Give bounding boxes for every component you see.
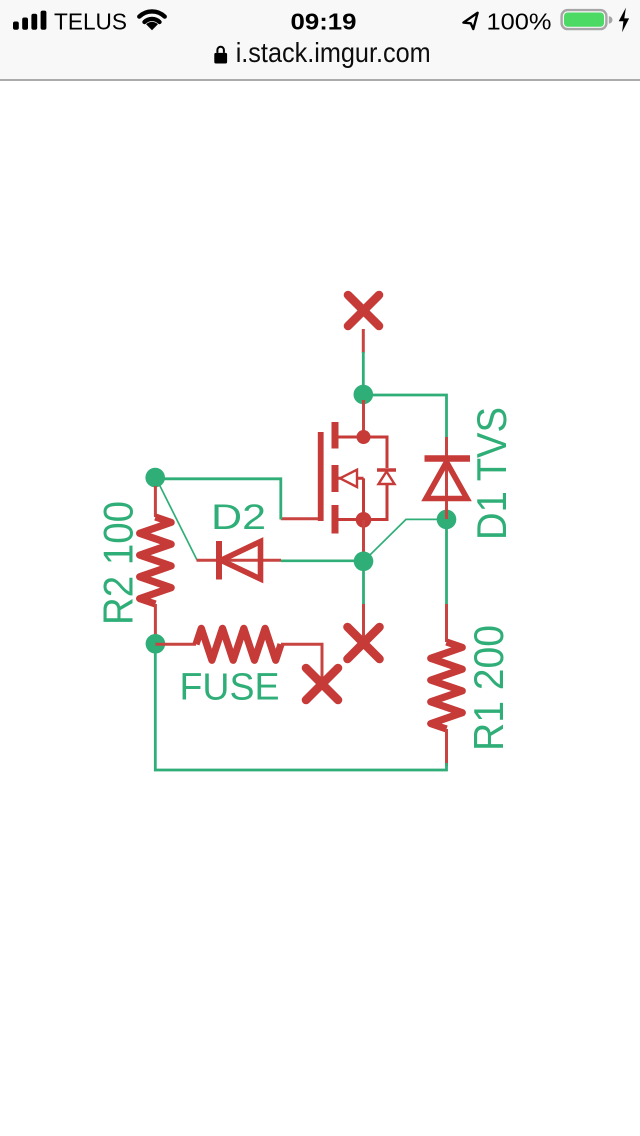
charging bolt <box>619 8 629 33</box>
status bar signal bars <box>13 11 46 30</box>
location services arrow <box>463 13 477 29</box>
resistor R1 bottom pin <box>445 729 448 766</box>
resistor R2 bottom pin <box>154 604 157 644</box>
svg-text:TELUS: TELUS <box>54 9 127 35</box>
svg-text:R2 100: R2 100 <box>95 501 142 625</box>
wire diagonal node B to D2 cathode <box>157 480 197 560</box>
label R1 200 <box>465 625 512 751</box>
svg-text:D2: D2 <box>211 498 266 537</box>
resistor R2 top pin <box>154 486 157 517</box>
wire node C down to X flag <box>362 566 365 606</box>
url bar padlock <box>214 47 227 64</box>
battery icon <box>562 10 613 29</box>
junction node C (source net) <box>354 552 374 572</box>
resistor R1 top pin <box>445 604 448 642</box>
transistor Q1 source pin <box>362 520 365 553</box>
pin stub to middle X flag <box>362 604 365 643</box>
wire node D down to R1 <box>445 525 448 606</box>
resistor R1 <box>431 642 463 729</box>
label D1 TVS <box>468 407 515 540</box>
svg-text:R1 200: R1 200 <box>465 625 512 751</box>
junction node D (D1 anode/R1 top) <box>437 510 457 530</box>
diode D2 pin line <box>197 559 282 562</box>
fuse F1 (zigzag) <box>196 628 281 660</box>
wire node C diagonal to node D <box>364 519 438 561</box>
wire bottom rail <box>155 652 446 770</box>
label FUSE <box>180 667 280 709</box>
browser chrome background <box>0 0 640 81</box>
svg-text:i.stack.imgur.com: i.stack.imgur.com <box>236 37 431 68</box>
svg-text:D1 TVS: D1 TVS <box>468 407 515 540</box>
wire D2 anode to node C <box>281 559 356 562</box>
transistor Q1 gate pin <box>281 517 318 520</box>
fuse F1 left pin <box>155 643 196 646</box>
junction node E (R2 bottom/FUSE) <box>146 634 166 654</box>
wire from node A to D1 <box>363 395 446 437</box>
label D2 <box>211 498 266 537</box>
transistor Q1 (N-MOSFET) <box>321 422 396 534</box>
wifi icon <box>139 11 164 30</box>
diode D2 <box>219 541 261 580</box>
battery percent 100% <box>487 8 552 34</box>
pin stub from top flag <box>362 329 365 353</box>
no-connect flag X middle <box>348 627 380 659</box>
transistor Q1 drain pin <box>362 400 365 437</box>
resistor R2 <box>140 517 172 604</box>
url text i.stack.imgur.com <box>236 37 431 68</box>
carrier name TELUS <box>54 9 127 35</box>
label R2 100 <box>95 501 142 625</box>
diode D1 (TVS) <box>425 459 471 499</box>
no-connect flag X lower <box>306 668 338 700</box>
clock 09:19 <box>291 8 357 34</box>
junction node B (gate/R2 top) <box>145 468 165 488</box>
junction node A (drain net) <box>354 385 374 405</box>
wire fuse to lower X flag <box>281 644 322 684</box>
no-connect flag X top <box>348 295 379 326</box>
wire gate net from node B <box>155 479 281 520</box>
wire top vertical <box>362 352 365 386</box>
svg-text:09:19: 09:19 <box>291 8 357 34</box>
svg-text:100%: 100% <box>487 8 552 34</box>
svg-text:FUSE: FUSE <box>180 667 280 709</box>
diode D1 pin line <box>445 437 448 519</box>
